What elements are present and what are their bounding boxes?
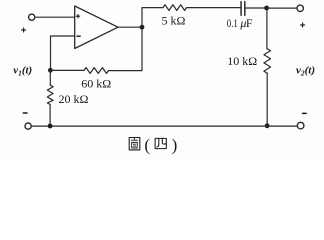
wire 10k to bottom rail	[266, 73, 268, 126]
wire 60k to node B (feedback)	[109, 27, 143, 70]
op-amp minus pin mark	[77, 35, 80, 37]
wire node C to top-right terminal	[267, 7, 297, 9]
terminal top-left	[29, 14, 35, 20]
capacitor C1 plates	[241, 2, 245, 16]
svg-text:10 kΩ: 10 kΩ	[227, 54, 257, 68]
resistor 5k zigzag	[163, 5, 187, 11]
wire node C down to 10k	[266, 8, 268, 49]
op-amp U1	[75, 6, 118, 49]
resistor 20k zigzag (vertical)	[47, 85, 53, 104]
wire capacitor to node C	[246, 7, 267, 9]
polarity plus left	[22, 28, 26, 32]
terminal top-right	[297, 5, 303, 11]
node E junction dot	[48, 124, 53, 129]
wire op-amp - input to node A	[51, 36, 75, 70]
wire node A to 60k	[50, 69, 84, 71]
polarity plus right	[301, 23, 305, 27]
terminal bottom-right	[297, 122, 304, 129]
wire 5k to capacitor	[187, 7, 241, 9]
wire node B up to top rail	[142, 8, 163, 28]
resistor 10k zigzag (vertical)	[264, 49, 271, 73]
polarity minus right	[303, 112, 307, 114]
terminal bottom-left	[25, 123, 31, 129]
node C junction dot	[264, 6, 269, 11]
caption glyph TU (figure)	[129, 138, 140, 150]
op-amp plus pin mark	[76, 15, 79, 18]
svg-text:F: F	[246, 16, 253, 30]
svg-text:(: (	[144, 135, 150, 154]
wire v1+ to op-amp + input	[35, 16, 75, 18]
svg-text:v2(t): v2(t)	[296, 64, 315, 77]
polarity minus left	[23, 112, 27, 114]
svg-text:60 kΩ: 60 kΩ	[81, 76, 111, 90]
wire 20k to bottom rail	[49, 104, 51, 126]
node D junction dot	[265, 123, 270, 128]
svg-text:): )	[172, 135, 178, 154]
node B junction dot	[140, 25, 145, 30]
caption glyph SI (four)	[155, 138, 166, 148]
bottom rail wire	[32, 125, 298, 127]
node A junction dot	[48, 68, 53, 73]
wire node A down to 20k	[49, 70, 51, 85]
wire op-amp output to node B	[118, 26, 142, 28]
svg-text:20 kΩ: 20 kΩ	[59, 92, 89, 106]
svg-text:v1(t): v1(t)	[13, 65, 32, 78]
svg-text:0.1: 0.1	[227, 16, 238, 30]
svg-text:5 kΩ: 5 kΩ	[162, 13, 186, 27]
resistor 60k zigzag	[84, 68, 109, 74]
